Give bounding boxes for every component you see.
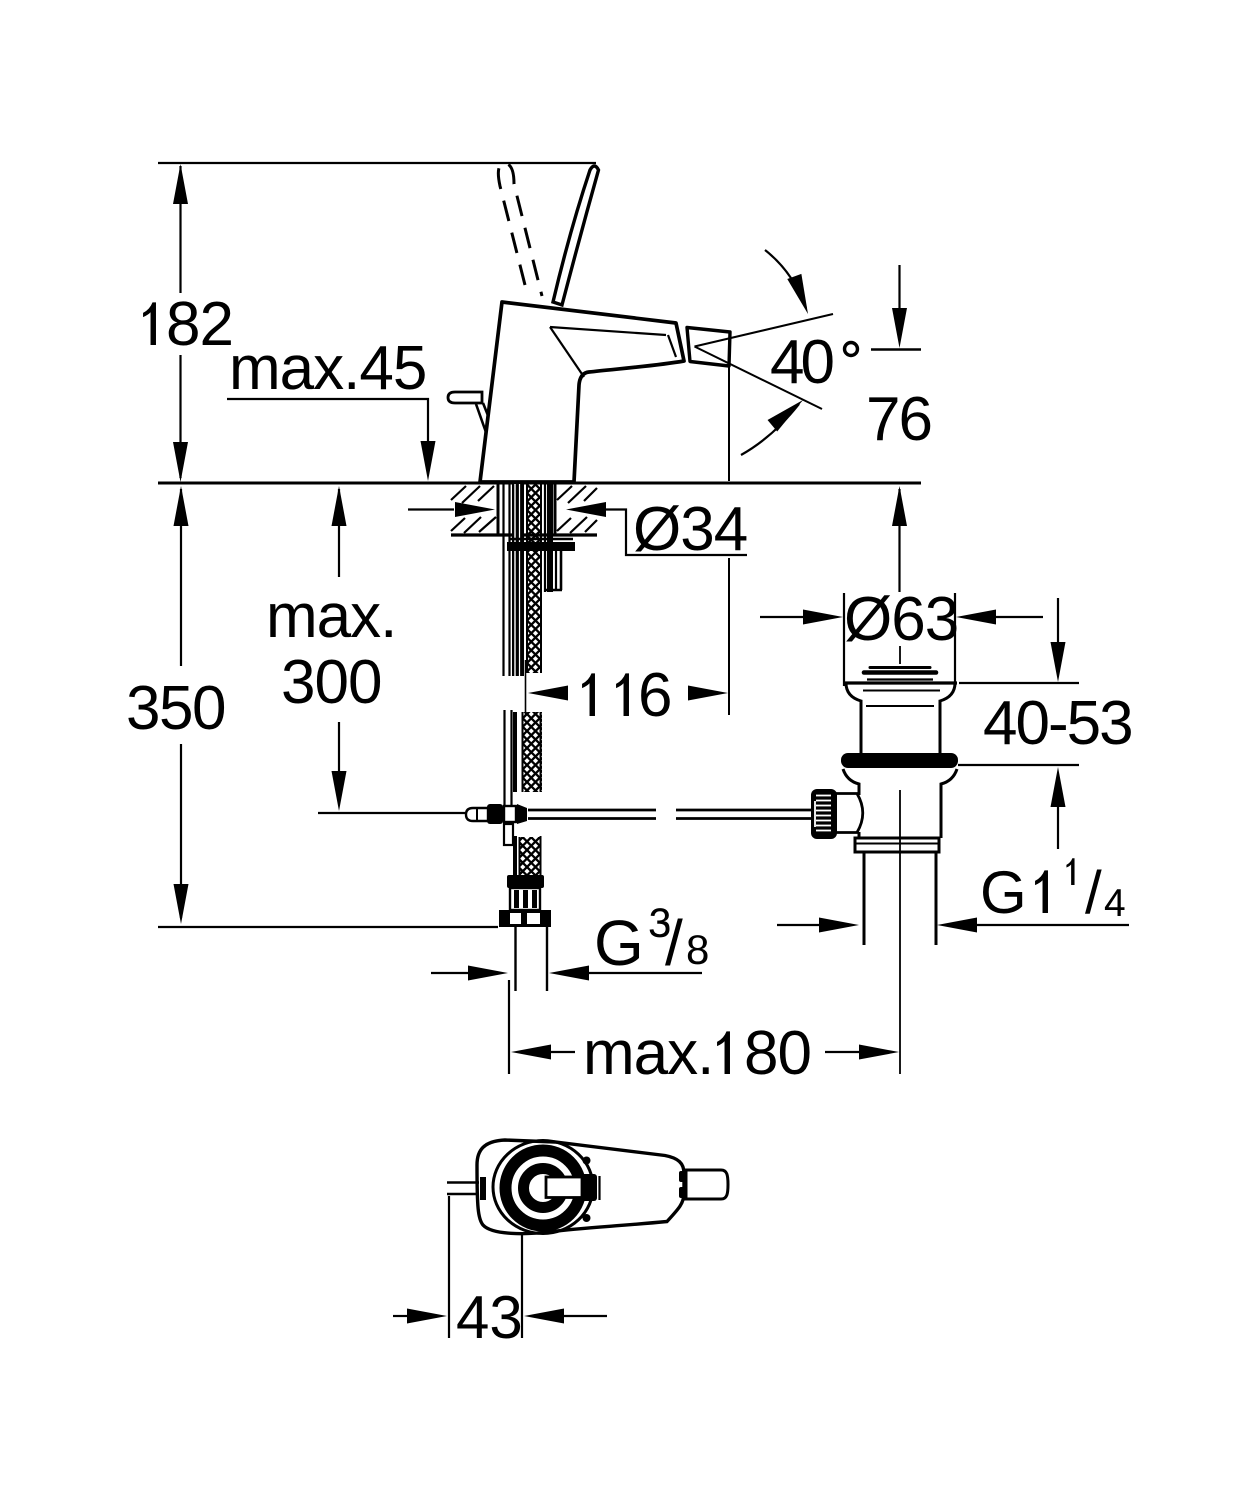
node dimension 76 — [871, 348, 921, 350]
node dimension 40-53 — [959, 682, 1079, 684]
hose braid segment 2 — [522, 712, 542, 792]
node dimension G1 1/4 — [777, 924, 819, 926]
node dimension G3/8 — [431, 972, 469, 974]
svg-text:max.: max. — [266, 582, 396, 651]
lever handle solid — [553, 166, 599, 305]
wire horizontal pop-up rod — [528, 809, 656, 812]
node dimension 116 — [528, 686, 568, 701]
node dimension 350 vertical line — [174, 486, 189, 526]
node dimension 43 — [448, 1196, 450, 1338]
supply pipe — [514, 927, 516, 991]
node 40 deg upper ray — [695, 314, 834, 347]
wire max.45 leader — [227, 399, 428, 444]
node shank centerline — [525, 660, 527, 716]
hose end ferrule — [507, 875, 544, 888]
top view thick ring B — [524, 1169, 563, 1208]
svg-text:/: / — [1085, 859, 1102, 926]
wire 116 right extension line — [728, 367, 730, 481]
body facet line left — [550, 327, 584, 377]
pop-up rod coupling — [466, 808, 488, 821]
mounting nut below deck — [507, 542, 575, 551]
drain flange — [846, 683, 955, 753]
spout aerator piece — [687, 328, 730, 367]
top view outer circle — [493, 1141, 593, 1234]
svg-text:350: 350 — [126, 674, 225, 743]
top view screw dots — [583, 1157, 591, 1165]
body facet line top — [550, 327, 666, 335]
top view lever bar — [546, 1177, 582, 1198]
svg-text:82: 82 — [166, 290, 233, 359]
svg-text:Ø34: Ø34 — [633, 495, 747, 564]
lever handle dashed alternate position — [498, 163, 542, 296]
vertical rod stub below coupling — [504, 824, 513, 845]
body facet line right — [668, 335, 676, 357]
deck hatching left block — [451, 486, 496, 533]
wire max.300 bottom reference line — [318, 812, 468, 814]
svg-text:G: G — [594, 907, 644, 979]
svg-text:40: 40 — [770, 328, 833, 397]
node dimension 182 vertical line — [179, 166, 181, 293]
svg-text:43: 43 — [456, 1284, 523, 1351]
node label 182 — [143, 302, 156, 345]
drain O-ring seal — [841, 753, 958, 768]
top view thick ring A — [506, 1151, 581, 1226]
svg-text:80: 80 — [744, 1019, 811, 1088]
svg-text:max.: max. — [583, 1019, 713, 1088]
wire deck/counter top line — [158, 482, 921, 485]
svg-text:300: 300 — [281, 648, 381, 717]
pop-up rod knob at left of body — [448, 392, 482, 403]
wire 350 bottom reference line — [158, 926, 498, 928]
top view body outline — [477, 1140, 684, 1234]
svg-text:G: G — [980, 859, 1027, 926]
faucet body outline — [480, 302, 684, 482]
drain pop-up cap — [870, 666, 930, 669]
drain valve body — [843, 769, 957, 838]
node dimension Ø63 — [843, 593, 845, 686]
svg-text:/: / — [665, 907, 683, 979]
drain flange inner lines — [863, 690, 940, 692]
side port with knurled adjuster — [835, 794, 863, 833]
deck bottom line — [451, 533, 597, 536]
wire top reference line (lever top) — [158, 162, 596, 164]
node dimension max.300 vertical line — [332, 486, 347, 526]
node 40 deg lower ray — [695, 347, 823, 410]
svg-text:40-53: 40-53 — [983, 689, 1132, 758]
drain union nut — [855, 838, 939, 852]
hose end ribbed section — [510, 888, 540, 910]
drain centerline lower — [899, 790, 901, 1074]
node 40 deg upper arc arrow — [765, 250, 806, 308]
supply nut G3/8 — [499, 910, 551, 927]
mounting washer below deck — [509, 538, 573, 540]
svg-text:Ø63: Ø63 — [844, 585, 958, 654]
top view pull rod — [447, 1181, 479, 1183]
flexible hose braid segment 1 — [526, 484, 542, 673]
svg-text:76: 76 — [866, 385, 931, 454]
svg-text:max.45: max.45 — [229, 334, 426, 403]
node dimension Ø34 — [408, 508, 454, 510]
drain centerline upper — [899, 646, 901, 664]
deck hatching right block — [557, 486, 597, 533]
hose braid segment 3 — [519, 837, 541, 876]
svg-text:6: 6 — [638, 661, 672, 730]
drain tailpipe — [863, 852, 866, 945]
top view aerator — [686, 1170, 728, 1199]
node dimension max.180 — [508, 980, 510, 1074]
threaded stud segment 2 — [503, 710, 505, 806]
node 40 deg lower arc arrow — [741, 404, 799, 455]
wire 76 lower extension with up arrow below deck — [892, 486, 907, 526]
faucet shank through deck — [497, 484, 500, 535]
